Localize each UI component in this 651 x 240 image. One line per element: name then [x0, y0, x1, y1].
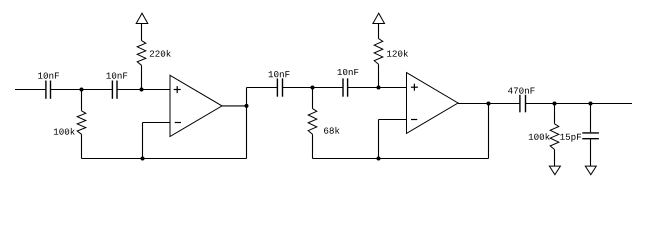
node N1 junction — [80, 88, 84, 92]
wire U2 output feedback drop — [488, 104, 490, 159]
ground arrow (below R5) — [549, 166, 560, 175]
wire N1 to C2 — [82, 89, 113, 91]
capacitor C5 470nF — [520, 95, 526, 113]
label R5 value 100k — [529, 133, 550, 140]
capacitor C1 10nF — [46, 81, 51, 99]
label C4 value 10nF — [338, 69, 359, 75]
wire C2 to op-amp U1 + input — [117, 89, 171, 91]
ground arrow (below C6) — [585, 166, 596, 175]
power arrow V+ (stage 2) — [373, 13, 385, 23]
label R2 value 220k — [150, 50, 171, 57]
wire C1 to node N1 — [51, 89, 82, 91]
capacitor C2 10nF — [112, 81, 117, 99]
wire feedback rail stage 1 — [82, 158, 247, 160]
label C3 value 10nF — [269, 71, 290, 77]
wire feedback rail stage 2 — [313, 158, 489, 160]
wire stage 2 input to C3 — [247, 87, 278, 89]
resistor R5 100k (N9 to ground) — [550, 104, 559, 167]
power arrow V+ (stage 1) — [136, 13, 148, 23]
capacitor C3 10nF — [277, 78, 282, 96]
node N9 junction (R5 top) — [553, 102, 557, 106]
op-amp U1 plus sign — [174, 86, 181, 93]
node N2 junction (R2 bottom) — [140, 88, 144, 92]
resistor R4 120k (V+ to N6) — [374, 24, 383, 88]
node N10 junction (C6 top) — [589, 102, 593, 106]
wire U2 - input — [379, 119, 407, 121]
resistor R1 100k (N1 to feedback rail) — [77, 90, 86, 159]
capacitor C6 15pF (N10 to ground) — [582, 104, 599, 167]
node N6 junction (R4 bottom) — [377, 86, 381, 90]
resistor R2 220k (V+ to N2) — [137, 24, 146, 90]
wire C3 to C4 — [283, 87, 344, 89]
capacitor C4 10nF — [343, 78, 348, 96]
op-amp U2 plus sign — [411, 84, 418, 91]
node N7 junction on feedback rail — [377, 157, 381, 161]
label C6 value 15pF — [560, 134, 581, 142]
op-amp U2 triangle — [407, 73, 459, 134]
node N5 junction (R3 top) — [311, 86, 315, 90]
node N3 junction on feedback rail — [141, 157, 145, 161]
node N4 output of U1 — [245, 104, 249, 108]
node N8 output of U2 — [487, 102, 491, 106]
resistor R3 68k (N5 to feedback rail) — [308, 88, 317, 159]
op-amp U1 minus sign — [175, 122, 181, 124]
label C5 value 470nF — [508, 87, 534, 93]
wire C4 to op-amp U2 + input — [348, 87, 407, 89]
op-amp U2 minus sign — [411, 119, 417, 121]
wire U1 - input — [143, 122, 171, 124]
label R1 value 100k — [54, 128, 75, 135]
label R4 value 120k — [387, 50, 408, 57]
wire U1 output vertical riser — [246, 88, 248, 159]
op-amp U1 triangle — [170, 75, 222, 136]
wire input net IN — [15, 89, 46, 91]
label C1 value 10nF — [38, 72, 59, 78]
label C2 value 10nF — [106, 72, 127, 78]
wire U1 output — [222, 105, 247, 107]
wire feedback vertical (stage 1) — [142, 123, 144, 159]
wire C5 to output net OUT — [526, 103, 633, 105]
wire feedback vertical (stage 2) — [378, 120, 380, 159]
wire U2 output — [458, 103, 489, 105]
label R3 value 68k — [324, 127, 339, 134]
wire N8 to C5 — [489, 103, 521, 105]
